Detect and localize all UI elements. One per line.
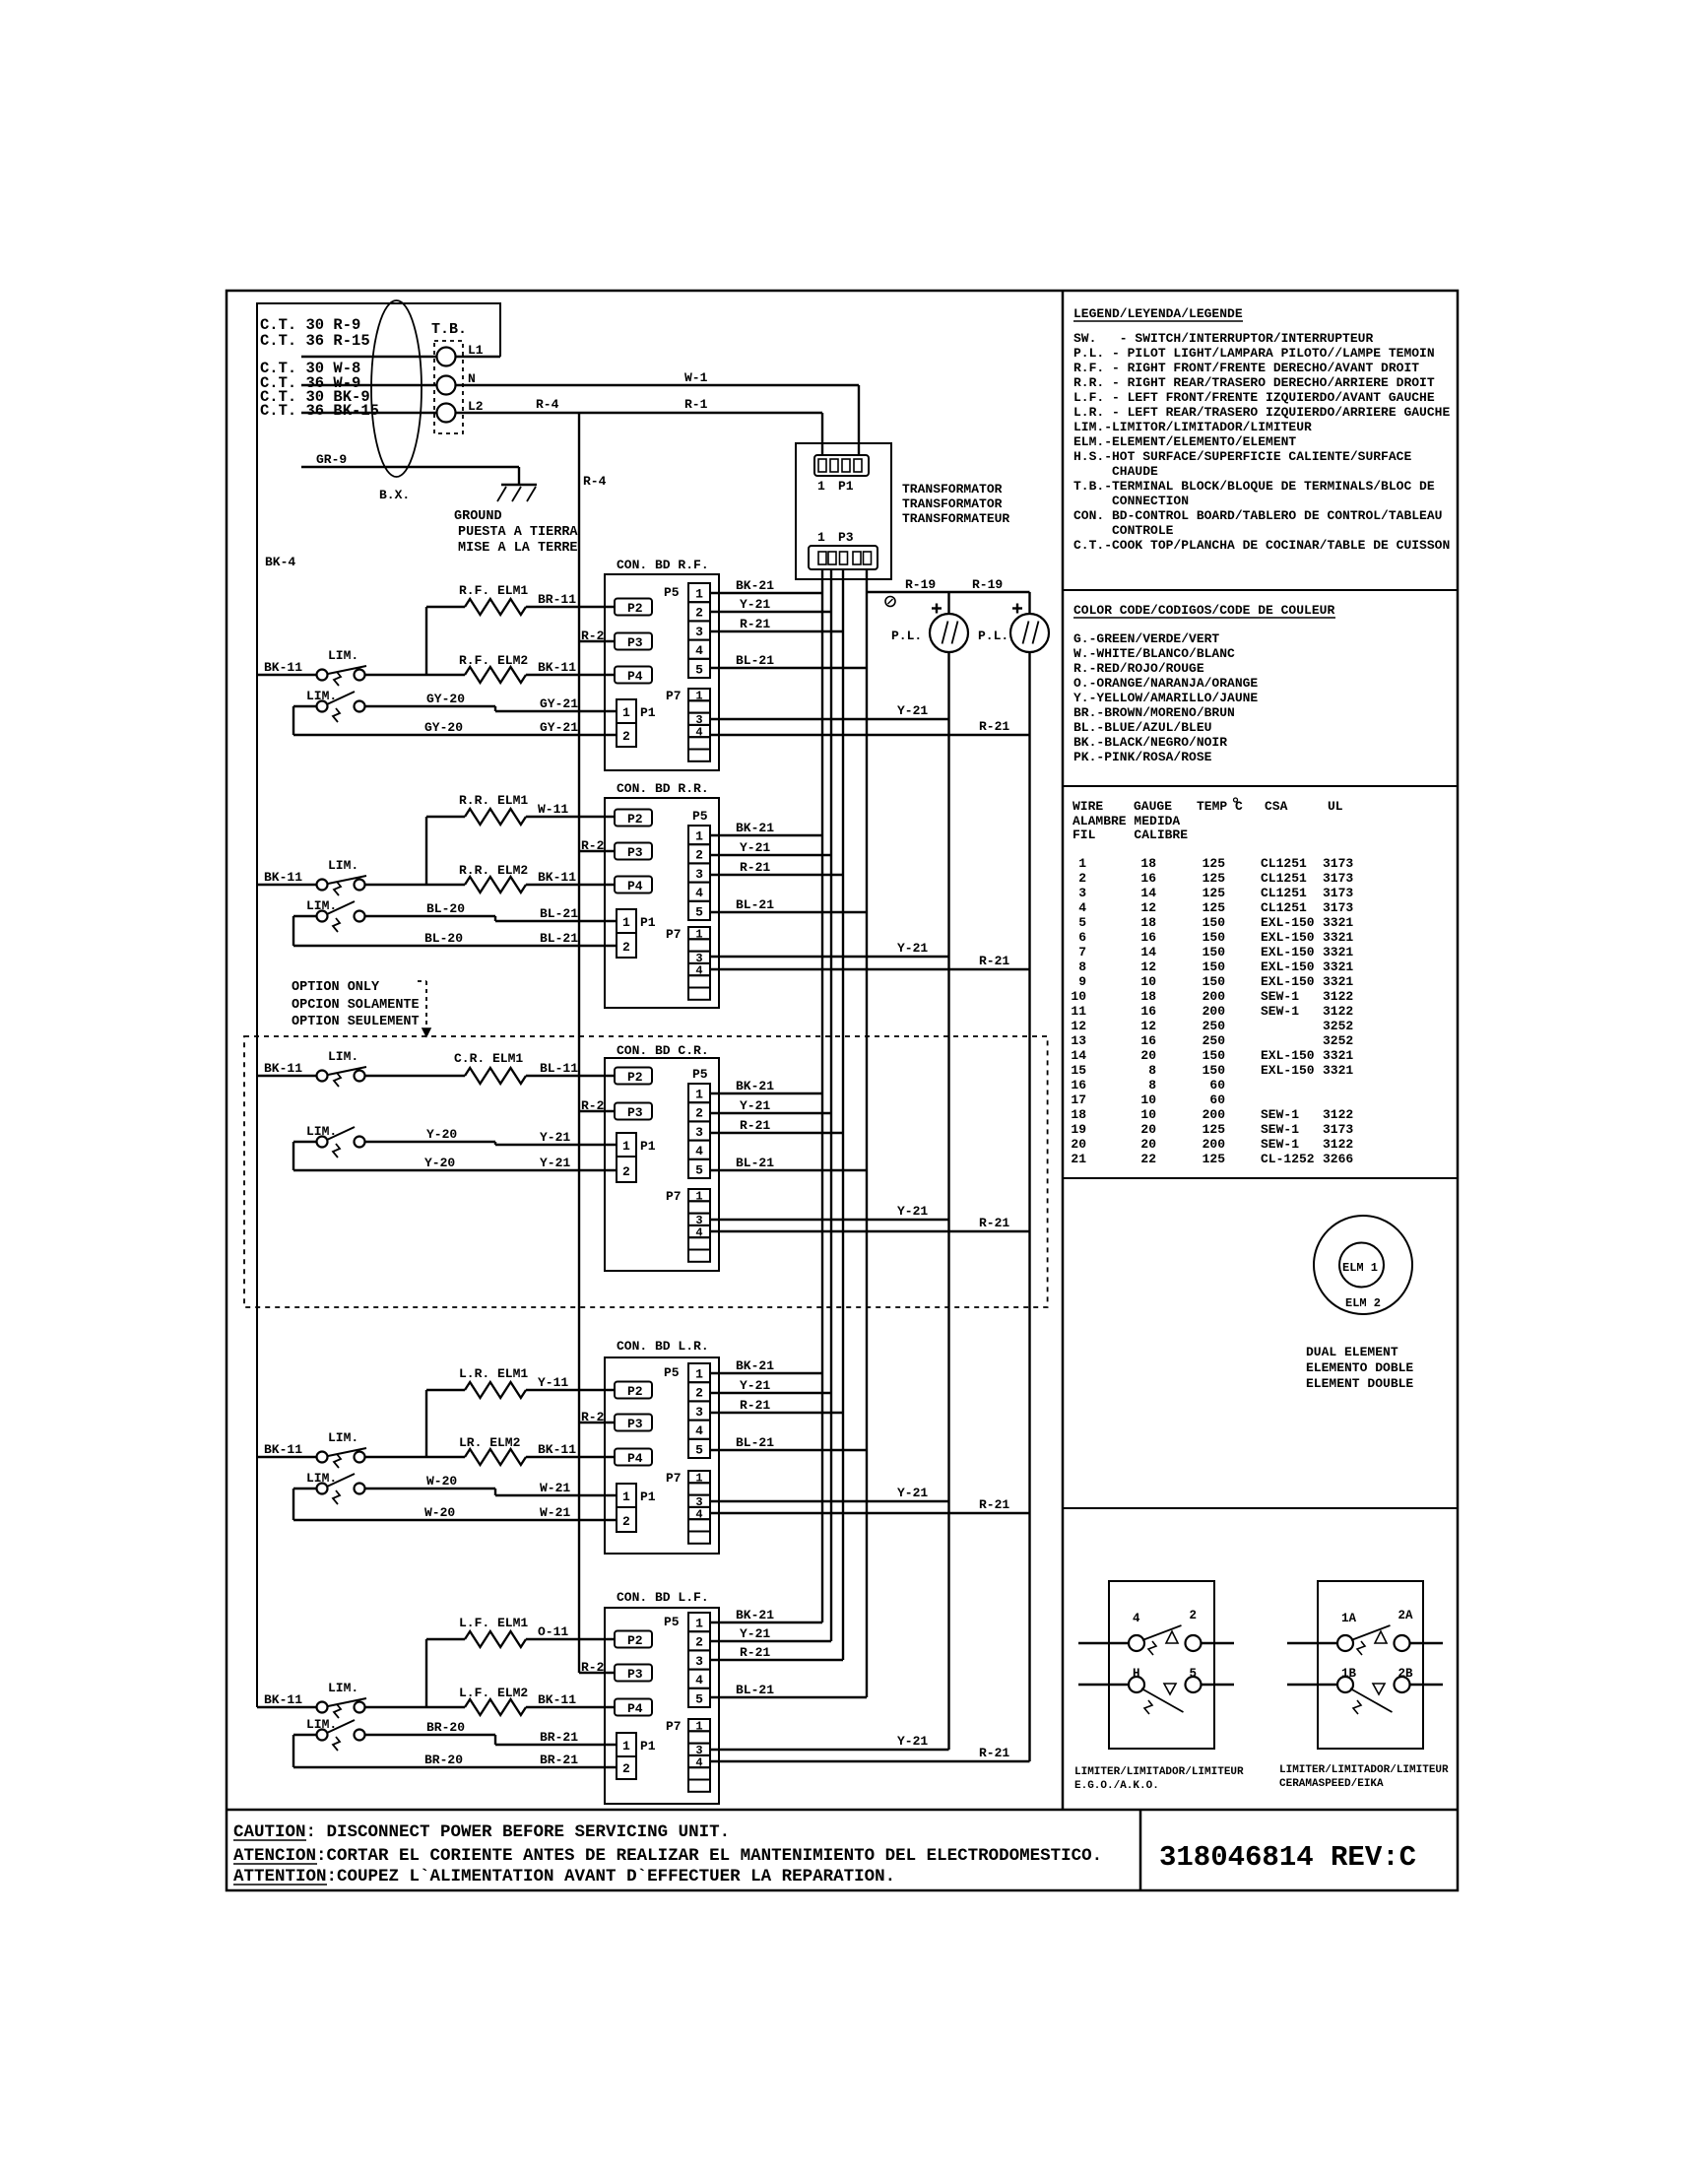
wire BL-21 from P5 R.R. xyxy=(710,911,867,913)
element L.R. ELM1 xyxy=(465,1382,526,1398)
svg-text:P7: P7 xyxy=(666,1471,682,1486)
svg-text:R-21: R-21 xyxy=(740,1118,770,1133)
svg-text:4: 4 xyxy=(695,643,703,658)
svg-text:125: 125 xyxy=(1202,900,1226,915)
svg-text:16: 16 xyxy=(1140,871,1156,886)
svg-text:SEW-1: SEW-1 xyxy=(1261,1004,1299,1019)
svg-text:R-2: R-2 xyxy=(581,1410,605,1424)
wire BK-4 bus and top stub xyxy=(257,303,500,1707)
svg-text:P2: P2 xyxy=(627,1633,643,1648)
limiter switch LIM. 2 L.R. xyxy=(306,1471,365,1504)
label OPTION ONLY / OPCION SOLAMENTE / OPTION SEULEMENT xyxy=(292,980,420,1029)
svg-text:3: 3 xyxy=(695,1125,703,1140)
transformer connector P1 xyxy=(814,455,869,476)
svg-text:LR. ELM2: LR. ELM2 xyxy=(459,1435,521,1450)
legend section separator 1 xyxy=(1063,589,1458,591)
wire Y-21 from P7 C.R. xyxy=(710,1219,949,1221)
limiter switch LIM. 2 R.F. xyxy=(306,689,365,722)
svg-text:CON. BD R.R.: CON. BD R.R. xyxy=(617,781,709,796)
svg-text:3173: 3173 xyxy=(1323,1122,1353,1137)
limiter switch LIM. 1 R.R. xyxy=(317,858,367,895)
svg-text:1: 1 xyxy=(695,928,702,942)
element L.F. ELM1 xyxy=(465,1631,526,1647)
svg-text:1: 1 xyxy=(622,1739,630,1754)
connector P5 R.F. xyxy=(664,583,710,678)
svg-text:LIM.: LIM. xyxy=(328,1430,358,1445)
svg-text:125: 125 xyxy=(1202,1122,1226,1137)
svg-text:1: 1 xyxy=(817,530,825,545)
svg-text:2: 2 xyxy=(695,1386,703,1401)
svg-text:1: 1 xyxy=(695,1617,703,1631)
connector P2 C.R. xyxy=(615,1068,652,1085)
svg-text:R.-RED/ROJO/ROUGE: R.-RED/ROJO/ROUGE xyxy=(1073,661,1204,676)
svg-text:125: 125 xyxy=(1202,886,1226,900)
svg-text:W-21: W-21 xyxy=(540,1481,570,1495)
svg-text:1: 1 xyxy=(695,1472,702,1486)
svg-text:C.T. 36 R-15: C.T. 36 R-15 xyxy=(260,332,370,350)
dual element inner circle ELM 1 xyxy=(1339,1243,1384,1288)
svg-text:BR-21: BR-21 xyxy=(540,1730,578,1745)
svg-text:P5: P5 xyxy=(664,1615,680,1629)
svg-text:C.R. ELM1: C.R. ELM1 xyxy=(454,1051,523,1066)
svg-text:18: 18 xyxy=(1140,915,1156,930)
wire after limiter L.R. xyxy=(365,1456,466,1458)
svg-text:Y-21: Y-21 xyxy=(897,1734,928,1749)
connector P5 C.R. xyxy=(688,1067,710,1178)
svg-text:P7: P7 xyxy=(666,689,682,703)
wire BK-11 into P4 L.F. xyxy=(526,1706,615,1708)
svg-text:1: 1 xyxy=(622,1139,630,1154)
svg-text:GAUGE: GAUGE xyxy=(1134,799,1172,814)
svg-text:6: 6 xyxy=(1078,930,1086,945)
connector P2 L.F. xyxy=(615,1631,652,1648)
wire BK-21 from P5 C.R. xyxy=(710,1092,822,1094)
svg-text:BK-21: BK-21 xyxy=(736,1079,774,1093)
svg-text:GR-9: GR-9 xyxy=(316,452,347,467)
element R.R. ELM1 xyxy=(465,809,526,825)
wire BL-20 top R.R. xyxy=(365,901,617,921)
svg-text:2: 2 xyxy=(1078,871,1086,886)
wire BR-11 into P2 R.F. xyxy=(526,606,615,608)
connector P5 R.R. xyxy=(688,809,710,920)
wire BK-11 feed L.F. xyxy=(257,1706,317,1708)
svg-text:R.F. - RIGHT FRONT/FRENTE DERE: R.F. - RIGHT FRONT/FRENTE DERECHO/AVANT … xyxy=(1073,361,1419,375)
wire after limiter R.F. xyxy=(365,674,466,676)
svg-text:P3: P3 xyxy=(627,1105,643,1120)
svg-text:R.F. ELM1: R.F. ELM1 xyxy=(459,583,528,598)
wire BK-11 into P4 L.R. xyxy=(526,1456,615,1458)
limiter switch LIM. 1 R.F. xyxy=(317,648,367,686)
svg-text:P7: P7 xyxy=(666,927,682,942)
svg-text:Y-21: Y-21 xyxy=(740,1378,770,1393)
svg-text:4: 4 xyxy=(695,886,703,900)
svg-text:BL-21: BL-21 xyxy=(736,1683,774,1697)
svg-text:2: 2 xyxy=(695,606,703,621)
wire Y-21 from P5 L.R. xyxy=(710,1392,831,1394)
wire Y-21 from P5 R.F. xyxy=(710,611,831,613)
svg-text:L.R. - LEFT REAR/TRASERO IZQUI: L.R. - LEFT REAR/TRASERO IZQUIERDO/ARRIE… xyxy=(1073,405,1450,420)
connector P4 R.F. xyxy=(615,667,652,684)
svg-text:T.B.: T.B. xyxy=(431,321,467,338)
svg-text:P7: P7 xyxy=(666,1719,682,1734)
svg-text:2A: 2A xyxy=(1398,1609,1414,1622)
connector P2 R.F. xyxy=(615,599,652,616)
svg-text:EXL-150: EXL-150 xyxy=(1261,974,1315,989)
svg-text:1: 1 xyxy=(817,479,825,494)
wire Y-21 from P5 L.F. xyxy=(710,1640,831,1642)
svg-text:ATENCION:CORTAR EL CORIENTE AN: ATENCION:CORTAR EL CORIENTE ANTES DE REA… xyxy=(233,1846,1102,1866)
wire after limiter R.R. xyxy=(365,884,466,886)
svg-text:Y-21: Y-21 xyxy=(897,1204,928,1219)
svg-text:R.F. ELM2: R.F. ELM2 xyxy=(459,653,528,668)
svg-text:R-2: R-2 xyxy=(581,1660,605,1675)
svg-text:2: 2 xyxy=(1190,1609,1198,1622)
svg-text:12: 12 xyxy=(1140,960,1156,974)
svg-text:R-21: R-21 xyxy=(740,1645,770,1660)
wire R-21 from P7 R.F. xyxy=(710,734,1030,736)
svg-text:5: 5 xyxy=(1190,1667,1198,1681)
ground symbol xyxy=(497,485,537,501)
wire R-21 from P5 L.R. xyxy=(710,1412,843,1414)
svg-text:9: 9 xyxy=(1078,974,1086,989)
svg-text:CON. BD L.R.: CON. BD L.R. xyxy=(617,1339,709,1354)
svg-text:CON. BD C.R.: CON. BD C.R. xyxy=(617,1043,709,1058)
svg-text:3173: 3173 xyxy=(1323,886,1353,900)
dual element outer circle ELM 2 xyxy=(1314,1216,1412,1314)
wire R-21 from P7 C.R. xyxy=(710,1230,1030,1232)
limiter switch LIM. 1 L.R. xyxy=(317,1430,367,1468)
wire after limiter C.R. xyxy=(365,1075,466,1077)
svg-text:Y-21: Y-21 xyxy=(897,941,928,956)
svg-text:3321: 3321 xyxy=(1323,915,1353,930)
svg-text:L.F. ELM1: L.F. ELM1 xyxy=(459,1616,528,1630)
svg-text:CHAUDE: CHAUDE xyxy=(1073,464,1158,479)
svg-text:BK-21: BK-21 xyxy=(736,1358,774,1373)
svg-text:2: 2 xyxy=(622,729,630,744)
svg-text:BL-21: BL-21 xyxy=(736,653,774,668)
svg-text:16: 16 xyxy=(1140,1033,1156,1048)
wire BL-11 into P2 C.R. xyxy=(526,1075,615,1077)
svg-text:BL-21: BL-21 xyxy=(540,906,578,921)
svg-text:4: 4 xyxy=(1078,900,1086,915)
svg-text:250: 250 xyxy=(1202,1019,1226,1033)
wire into L1 xyxy=(301,356,436,358)
svg-text:BR-20: BR-20 xyxy=(426,1720,465,1735)
svg-text:OPCION SOLAMENTE: OPCION SOLAMENTE xyxy=(292,998,420,1013)
wire BL-21 from P5 R.F. xyxy=(710,667,867,669)
connector P1 C.R. xyxy=(617,1133,656,1182)
svg-text:ELM.-ELEMENT/ELEMENTO/ELEMENT: ELM.-ELEMENT/ELEMENTO/ELEMENT xyxy=(1073,434,1296,449)
svg-text:P.L.: P.L. xyxy=(978,629,1008,643)
svg-text:16: 16 xyxy=(1071,1078,1086,1092)
svg-text:125: 125 xyxy=(1202,856,1226,871)
svg-text:BL.-BLUE/AZUL/BLEU: BL.-BLUE/AZUL/BLEU xyxy=(1073,720,1211,735)
svg-text:R-21: R-21 xyxy=(979,719,1009,734)
svg-text:O.-ORANGE/NARANJA/ORANGE: O.-ORANGE/NARANJA/ORANGE xyxy=(1073,676,1258,691)
connector P7 C.R. xyxy=(666,1189,710,1262)
svg-text:10: 10 xyxy=(1140,1092,1156,1107)
svg-text:MISE A LA TERRE: MISE A LA TERRE xyxy=(458,541,578,556)
svg-text:W-11: W-11 xyxy=(538,802,568,817)
svg-text:3: 3 xyxy=(695,1654,703,1669)
svg-text:DUAL ELEMENT: DUAL ELEMENT xyxy=(1306,1345,1398,1359)
svg-text:CL1251: CL1251 xyxy=(1261,886,1307,900)
svg-text:P3: P3 xyxy=(627,845,643,860)
svg-text:R.R. ELM2: R.R. ELM2 xyxy=(459,863,528,878)
svg-text:W-20: W-20 xyxy=(426,1474,457,1489)
wire N to transformer W-1 xyxy=(456,384,859,386)
svg-text:CAUTION: DISCONNECT POWER BEFO: CAUTION: DISCONNECT POWER BEFORE SERVICI… xyxy=(233,1822,730,1842)
svg-text:18: 18 xyxy=(1140,856,1156,871)
svg-text:BK-11: BK-11 xyxy=(538,660,576,675)
svg-text:P1: P1 xyxy=(838,479,854,494)
wire ELM1 row R.F. xyxy=(426,606,465,608)
wire L2 drop to transformer P1 pin 1 xyxy=(821,413,823,455)
svg-text:14: 14 xyxy=(1140,886,1156,900)
svg-text:BL-21: BL-21 xyxy=(540,931,578,946)
svg-text:1A: 1A xyxy=(1341,1612,1357,1625)
svg-text:BL-21: BL-21 xyxy=(736,1156,774,1170)
terminal N xyxy=(437,376,456,395)
connector P1 R.R. xyxy=(617,909,656,958)
svg-text:W-20: W-20 xyxy=(424,1505,455,1520)
wire R-21 from P5 R.R. xyxy=(710,874,843,876)
wire R-2 into P3 C.R. xyxy=(579,1110,615,1112)
color code list xyxy=(1073,631,1258,764)
svg-text:L.F. ELM2: L.F. ELM2 xyxy=(459,1686,528,1700)
svg-text:Y-20: Y-20 xyxy=(426,1127,457,1142)
svg-text:3122: 3122 xyxy=(1323,1137,1353,1152)
svg-text:SEW-1: SEW-1 xyxy=(1261,989,1299,1004)
control board CON. BD R.F. box xyxy=(605,574,719,770)
svg-text:P3: P3 xyxy=(627,1417,643,1431)
legend section separator 2 xyxy=(1063,785,1458,787)
svg-text:BK-11: BK-11 xyxy=(538,1692,576,1707)
svg-text:3266: 3266 xyxy=(1323,1152,1353,1166)
svg-text:3252: 3252 xyxy=(1323,1019,1353,1033)
svg-text:GY-21: GY-21 xyxy=(540,720,578,735)
svg-text:150: 150 xyxy=(1202,974,1226,989)
svg-text:318046814 REV:C: 318046814 REV:C xyxy=(1159,1841,1416,1874)
svg-text:TRANSFORMATOR: TRANSFORMATOR xyxy=(902,496,1003,511)
label DUAL ELEMENT / ELEMENTO DOBLE / ELEMENT DOUBLE xyxy=(1306,1345,1413,1391)
svg-text:P4: P4 xyxy=(627,879,643,893)
svg-text:EXL-150: EXL-150 xyxy=(1261,1048,1315,1063)
connector P1 R.F. xyxy=(617,699,656,747)
svg-text:Y-21: Y-21 xyxy=(740,1626,770,1641)
svg-text:P5: P5 xyxy=(692,1067,708,1082)
wire Y-21 from P7 L.R. xyxy=(710,1500,949,1502)
svg-text:14: 14 xyxy=(1071,1048,1086,1063)
svg-text:4: 4 xyxy=(695,1225,702,1239)
wire BK-11 feed R.R. xyxy=(257,884,317,886)
svg-text:BK-11: BK-11 xyxy=(264,870,302,885)
svg-text:E.G.O./A.K.O.: E.G.O./A.K.O. xyxy=(1074,1780,1159,1792)
svg-text:4: 4 xyxy=(695,1673,703,1688)
wire BL-21 bus vertical xyxy=(866,569,868,1697)
svg-text:8: 8 xyxy=(1148,1078,1156,1092)
svg-text:L.R. ELM1: L.R. ELM1 xyxy=(459,1366,528,1381)
connector P3 C.R. xyxy=(615,1103,652,1120)
svg-text:LIM.: LIM. xyxy=(328,648,358,663)
svg-text:12: 12 xyxy=(1140,900,1156,915)
svg-text:60: 60 xyxy=(1209,1078,1225,1092)
wire BL-21 from P5 C.R. xyxy=(710,1169,867,1171)
svg-text:1: 1 xyxy=(695,1720,702,1734)
svg-text:BR-20: BR-20 xyxy=(424,1753,463,1767)
svg-text:EXL-150: EXL-150 xyxy=(1261,915,1315,930)
svg-text:R-21: R-21 xyxy=(979,1216,1009,1230)
svg-text:P4: P4 xyxy=(627,669,643,684)
legend abbreviation list xyxy=(1073,331,1450,553)
svg-text:H.S.-HOT SURFACE/SUPERFICIE CA: H.S.-HOT SURFACE/SUPERFICIE CALIENTE/SUR… xyxy=(1073,449,1411,464)
svg-text:TRANSFORMATEUR: TRANSFORMATEUR xyxy=(902,511,1009,526)
svg-text:LIM.: LIM. xyxy=(328,1681,358,1695)
svg-text:W.-WHITE/BLANCO/BLANC: W.-WHITE/BLANCO/BLANC xyxy=(1073,646,1235,661)
legend column divider xyxy=(1062,291,1065,1810)
svg-text:Y-21: Y-21 xyxy=(897,703,928,718)
svg-text:R-4: R-4 xyxy=(536,397,559,412)
wire Y-21 from P5 C.R. xyxy=(710,1112,831,1114)
svg-text:20: 20 xyxy=(1140,1048,1156,1063)
svg-text:O-11: O-11 xyxy=(538,1624,568,1639)
svg-text:150: 150 xyxy=(1202,1048,1226,1063)
svg-text:BK-11: BK-11 xyxy=(264,1442,302,1457)
svg-text:BR-21: BR-21 xyxy=(540,1753,578,1767)
svg-text:1: 1 xyxy=(695,587,703,602)
wire L1 to stub xyxy=(456,356,500,358)
svg-text:5: 5 xyxy=(695,662,703,677)
wire into L2 xyxy=(301,412,436,414)
svg-text:22: 22 xyxy=(1140,1152,1156,1166)
svg-text:150: 150 xyxy=(1202,915,1226,930)
legend title xyxy=(1073,306,1243,321)
svg-text:P1: P1 xyxy=(640,1739,656,1754)
svg-text:R.R. ELM1: R.R. ELM1 xyxy=(459,793,528,808)
wire R-21 from P7 R.R. xyxy=(710,968,1030,970)
svg-text:12: 12 xyxy=(1071,1019,1086,1033)
svg-text:R-21: R-21 xyxy=(740,860,770,875)
svg-text:150: 150 xyxy=(1202,945,1226,960)
riser to ELM1 R.F. xyxy=(425,607,427,675)
svg-text:P2: P2 xyxy=(627,1384,643,1399)
wire R-21 bus vertical xyxy=(842,569,844,1660)
wire BK-11 feed C.R. xyxy=(257,1075,317,1077)
wire Y-11 into P2 L.R. xyxy=(526,1389,615,1391)
wire W-20 bottom L.R. xyxy=(293,1489,617,1520)
svg-text:GROUND: GROUND xyxy=(454,509,502,524)
connector P2 R.R. xyxy=(615,810,652,827)
svg-text:P3: P3 xyxy=(627,1667,643,1682)
svg-text:CONTROLE: CONTROLE xyxy=(1073,523,1174,538)
svg-text:20: 20 xyxy=(1140,1122,1156,1137)
svg-text:L2: L2 xyxy=(468,399,484,414)
svg-text:Y-21: Y-21 xyxy=(740,597,770,612)
riser to ELM1 L.F. xyxy=(425,1639,427,1707)
svg-text:3173: 3173 xyxy=(1323,856,1353,871)
wire BK-21 from P5 R.F. xyxy=(710,592,822,594)
svg-text:P1: P1 xyxy=(640,915,656,930)
svg-text:Y-21: Y-21 xyxy=(897,1486,928,1500)
svg-text:CSA: CSA xyxy=(1265,799,1288,814)
label LIMITER/LIMITADOR/LIMITEUR CERAMASPEED/EIKA xyxy=(1279,1764,1449,1790)
connector P7 R.F. xyxy=(666,689,710,761)
svg-text:LIMITER/LIMITADOR/LIMITEUR: LIMITER/LIMITADOR/LIMITEUR xyxy=(1279,1764,1449,1776)
wire R-4 vertical bus xyxy=(578,413,580,1673)
wire ELM1 row R.R. xyxy=(426,816,465,818)
pilot light P.L. left xyxy=(930,614,968,652)
svg-text:5: 5 xyxy=(695,904,703,919)
wire L2 to transformer R-4 R-1 xyxy=(456,412,822,414)
svg-text:200: 200 xyxy=(1202,1137,1226,1152)
svg-text:2: 2 xyxy=(622,1761,630,1776)
wire after limiter L.F. xyxy=(365,1706,466,1708)
option dashed enclosure box xyxy=(244,1036,1048,1307)
wire O-11 into P2 L.F. xyxy=(526,1638,615,1640)
indicator circle symbol xyxy=(885,597,895,607)
svg-text:T.B.-TERMINAL BLOCK/BLOQUE DE: T.B.-TERMINAL BLOCK/BLOQUE DE TERMINALS/… xyxy=(1073,479,1435,494)
connector P1 L.R. xyxy=(617,1484,656,1532)
connector P4 L.R. xyxy=(615,1449,652,1466)
connector P1 L.F. xyxy=(617,1733,656,1779)
svg-text:H: H xyxy=(1133,1667,1140,1681)
svg-text:CL1251: CL1251 xyxy=(1261,856,1307,871)
svg-text:CON. BD-CONTROL BOARD/TABLERO: CON. BD-CONTROL BOARD/TABLERO DE CONTROL… xyxy=(1073,508,1442,523)
svg-text:5: 5 xyxy=(695,1691,703,1706)
svg-text:ALAMBRE MEDIDA: ALAMBRE MEDIDA xyxy=(1072,814,1180,828)
svg-text:150: 150 xyxy=(1202,960,1226,974)
svg-text:250: 250 xyxy=(1202,1033,1226,1048)
svg-text:4: 4 xyxy=(1133,1612,1140,1625)
svg-text:R-21: R-21 xyxy=(979,1746,1009,1760)
svg-text:17: 17 xyxy=(1071,1092,1086,1107)
svg-text:PK.-PINK/ROSA/ROSE: PK.-PINK/ROSA/ROSE xyxy=(1073,750,1212,764)
limiter switch LIM. 2 C.R. xyxy=(306,1124,365,1158)
svg-text:BL-21: BL-21 xyxy=(736,897,774,912)
svg-text:EXL-150: EXL-150 xyxy=(1261,960,1315,974)
svg-text:SEW-1: SEW-1 xyxy=(1261,1137,1299,1152)
limiter switch LIM. 1 C.R. xyxy=(317,1049,367,1087)
svg-text:R-2: R-2 xyxy=(581,838,605,853)
wire R-21 from P7 L.F. xyxy=(710,1760,1030,1762)
svg-text:150: 150 xyxy=(1202,930,1226,945)
svg-text:3321: 3321 xyxy=(1323,1048,1353,1063)
caution strip top border xyxy=(227,1809,1458,1812)
svg-text:BK-11: BK-11 xyxy=(264,1692,302,1707)
svg-text:1: 1 xyxy=(622,915,630,930)
svg-text:LIM.: LIM. xyxy=(328,1049,358,1064)
svg-text:GY-20: GY-20 xyxy=(426,692,465,706)
svg-text:OPTION SEULEMENT: OPTION SEULEMENT xyxy=(292,1015,420,1029)
svg-text:R-21: R-21 xyxy=(979,1497,1009,1512)
svg-text:200: 200 xyxy=(1202,1004,1226,1019)
wire BL-21 from P5 L.R. xyxy=(710,1449,867,1451)
svg-text:P.L.: P.L. xyxy=(891,629,922,643)
svg-text:P5: P5 xyxy=(664,585,680,600)
svg-text:125: 125 xyxy=(1202,871,1226,886)
svg-text:LEGEND/LEYENDA/LEGENDE: LEGEND/LEYENDA/LEGENDE xyxy=(1073,306,1243,321)
svg-text:WIRE: WIRE xyxy=(1072,799,1103,814)
svg-text:5: 5 xyxy=(695,1442,703,1457)
svg-text:CON. BD L.F.: CON. BD L.F. xyxy=(617,1590,709,1605)
svg-text:P5: P5 xyxy=(664,1365,680,1380)
svg-text:L.F. - LEFT FRONT/FRENTE IZQUI: L.F. - LEFT FRONT/FRENTE IZQUIERDO/AVANT… xyxy=(1073,390,1435,405)
svg-text:1: 1 xyxy=(695,829,703,844)
color code title xyxy=(1073,603,1335,618)
element L.F. ELM2 xyxy=(465,1699,526,1715)
element C.R. ELM1 xyxy=(465,1068,526,1084)
riser to ELM1 L.R. xyxy=(425,1390,427,1457)
